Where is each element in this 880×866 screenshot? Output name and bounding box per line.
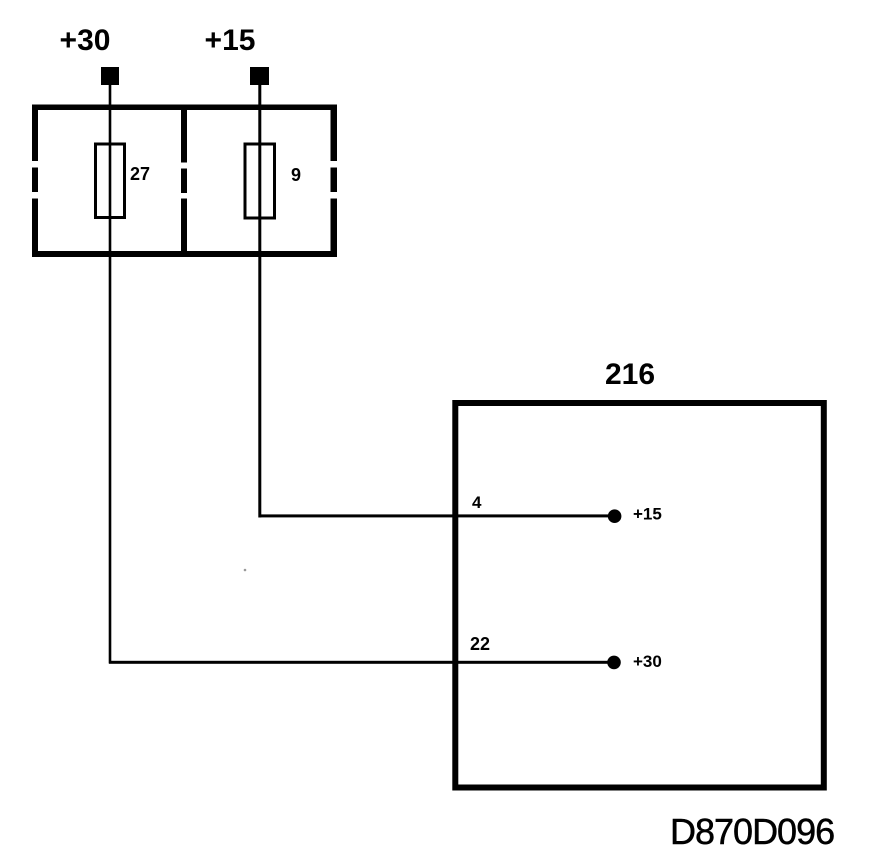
svg-text:22: 22 bbox=[470, 634, 490, 654]
svg-text:+15: +15 bbox=[633, 505, 662, 524]
svg-text:4: 4 bbox=[472, 493, 482, 512]
svg-text:+15: +15 bbox=[205, 24, 256, 57]
svg-text:27: 27 bbox=[130, 164, 150, 184]
svg-text:+30: +30 bbox=[633, 652, 662, 671]
svg-text:9: 9 bbox=[291, 165, 301, 185]
svg-text:D870D096: D870D096 bbox=[670, 811, 834, 852]
svg-text:216: 216 bbox=[605, 358, 655, 391]
svg-text:+30: +30 bbox=[60, 24, 111, 57]
